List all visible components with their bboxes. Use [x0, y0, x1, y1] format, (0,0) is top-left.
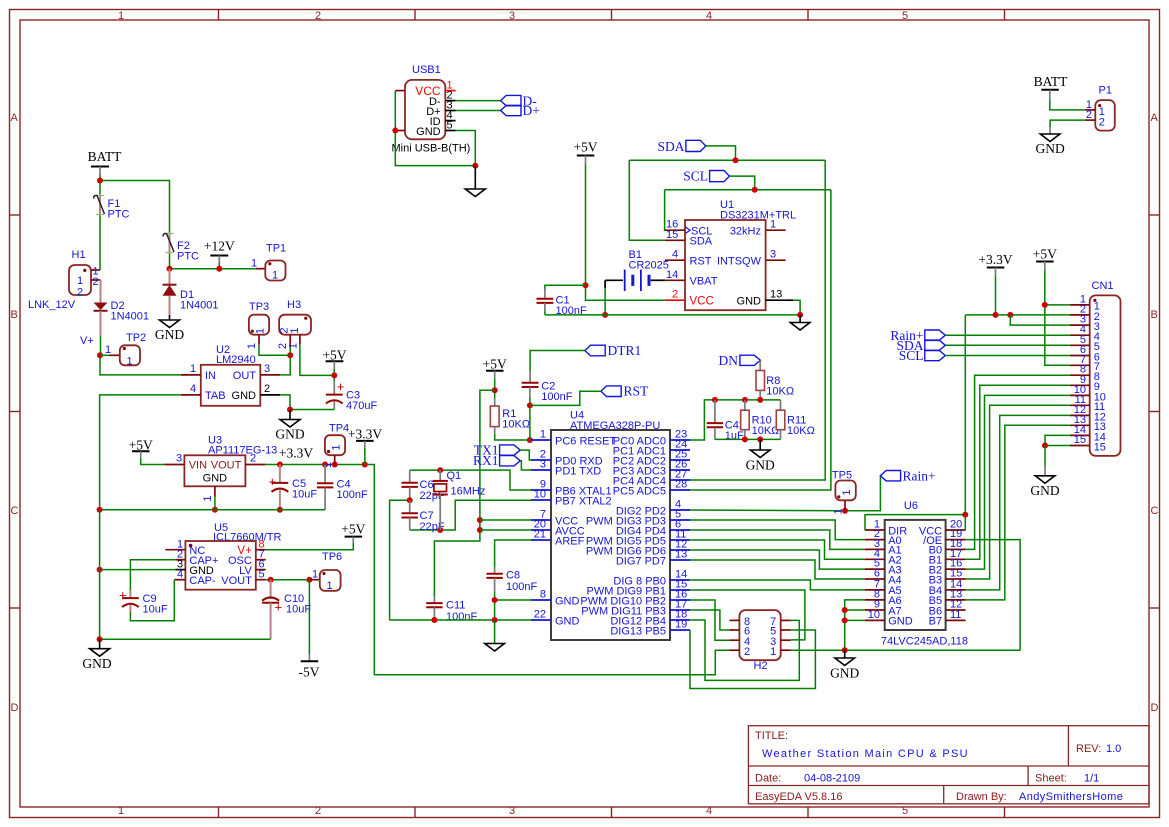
- wire SDA flag to rail: [706, 146, 736, 160]
- wire PB1 to H2 pin3: [690, 590, 805, 640]
- svg-text:D: D: [1151, 702, 1159, 714]
- svg-text:1: 1: [289, 327, 301, 333]
- svg-text:AREF: AREF: [555, 535, 585, 547]
- wire +5V node to VCC/AVCC rail: [434, 390, 494, 596]
- svg-text:2: 2: [1086, 109, 1092, 121]
- svg-text:PB7 XTAL2: PB7 XTAL2: [555, 495, 612, 507]
- +3.3V rail from U3 VOUT: [265, 465, 374, 675]
- svg-text:AndySmithersHome: AndySmithersHome: [1019, 791, 1123, 803]
- wire PB2 to H2 pin4: [690, 600, 730, 640]
- svg-text:AP1117EG-13: AP1117EG-13: [208, 445, 277, 457]
- wire USB D-: [456, 100, 501, 102]
- wire SCL long vertical to U4 pin28: [690, 190, 831, 490]
- crystal bottom rail XTAL2: [410, 500, 531, 530]
- svg-text:DIG13 PB5: DIG13 PB5: [610, 625, 666, 637]
- svg-text:22pF: 22pF: [420, 521, 445, 533]
- svg-text:PTC: PTC: [108, 209, 130, 221]
- svg-text:DTR1: DTR1: [608, 343, 642, 358]
- svg-text:GND: GND: [830, 666, 859, 681]
- node BATT junction: [97, 178, 103, 184]
- svg-text:3: 3: [770, 249, 776, 261]
- svg-text:13: 13: [770, 289, 782, 301]
- svg-text:+3.3V: +3.3V: [279, 446, 313, 461]
- frame tick left A/B: [10, 214, 20, 216]
- svg-text:GND: GND: [155, 327, 184, 342]
- svg-text:TP5: TP5: [832, 470, 852, 482]
- svg-text:GND: GND: [232, 390, 257, 402]
- frame tick top 2: [414, 10, 416, 20]
- wire U6 A7 to gnd: [845, 609, 865, 611]
- bottom gnd rail: [100, 638, 271, 640]
- wire CN1 pin13 to U6 B5: [966, 425, 1070, 600]
- wire DIG3 to U6 A0: [690, 520, 865, 540]
- svg-text:SCL: SCL: [899, 348, 924, 363]
- wire BATT to P1 pin1: [1050, 100, 1085, 110]
- svg-text:2: 2: [672, 289, 678, 301]
- regulator U2 LM2940: [201, 365, 260, 406]
- svg-text:A: A: [1151, 112, 1159, 124]
- svg-text:1: 1: [322, 462, 334, 468]
- svg-text:11: 11: [950, 609, 961, 621]
- wire DIG6 to U6 A3: [690, 550, 865, 569]
- svg-text:10uF: 10uF: [292, 489, 317, 501]
- resistor R11 10K: [780, 400, 782, 410]
- wire U6 /OE down to gnd row: [966, 540, 1021, 651]
- node TP3/H3 junction: [287, 352, 293, 358]
- svg-text:H1: H1: [72, 249, 86, 261]
- wire CN1 pin12 to U6 B4: [966, 415, 1070, 590]
- svg-text:10uF: 10uF: [286, 604, 311, 616]
- svg-text:LNK_12V: LNK_12V: [28, 299, 76, 311]
- svg-text:+5V: +5V: [573, 140, 597, 155]
- wire PB4 to H2 pin7: [690, 620, 799, 680]
- ground under U2: [289, 410, 291, 420]
- svg-text:10: 10: [868, 609, 880, 621]
- frame tick bottom 5: [1004, 807, 1006, 817]
- svg-text:GND: GND: [82, 656, 111, 671]
- svg-text:TP2: TP2: [126, 332, 146, 344]
- wire P1 pin2 to gnd: [1050, 120, 1085, 127]
- gnd rail under U3: [100, 509, 326, 511]
- svg-text:-5V: -5V: [299, 665, 320, 680]
- svg-text:1: 1: [118, 10, 124, 22]
- svg-text:+5V: +5V: [322, 348, 346, 363]
- svg-text:4: 4: [706, 10, 712, 22]
- wire U2 TAB to left gnd rail: [100, 395, 181, 510]
- wire SDA long vertical to U4 pin27: [690, 160, 825, 480]
- svg-text:RST: RST: [624, 384, 650, 399]
- wire CN1 pin10 to U6 B2: [966, 395, 1070, 569]
- frame tick left C/D: [10, 607, 20, 609]
- net flag D+: [501, 105, 521, 115]
- frame tick top 3: [611, 10, 613, 20]
- wire PC0 to divider: [690, 400, 781, 440]
- frame tick top 1: [218, 10, 220, 20]
- svg-text:ICL7660M/TR: ICL7660M/TR: [213, 532, 282, 544]
- wire U5 CAP+ through C9 to CAP-: [130, 560, 175, 590]
- svg-text:PTC: PTC: [177, 251, 199, 263]
- svg-text:+5V: +5V: [129, 438, 153, 453]
- svg-text:5: 5: [259, 569, 265, 581]
- diode D1: [169, 269, 171, 285]
- node F2/D1 junction: [167, 266, 173, 272]
- capacitor C9 10uF: [129, 590, 131, 598]
- svg-text:1: 1: [202, 496, 214, 502]
- svg-text:1: 1: [770, 646, 776, 658]
- svg-text:1: 1: [327, 580, 333, 592]
- wire RX1 to pin3: [520, 461, 531, 470]
- svg-text:4: 4: [190, 383, 196, 395]
- wire U6 VCC up to +3.3V row: [964, 315, 966, 515]
- svg-text:VBAT: VBAT: [690, 276, 718, 288]
- svg-text:+3.3V: +3.3V: [348, 427, 382, 442]
- test point TP3: [259, 345, 290, 356]
- svg-text:1: 1: [272, 270, 278, 282]
- svg-text:1: 1: [841, 489, 853, 495]
- ground under divider: [759, 439, 761, 450]
- svg-text:CAP-: CAP-: [189, 575, 216, 587]
- svg-text:TP4: TP4: [329, 423, 349, 435]
- svg-text:100nF: 100nF: [541, 391, 572, 403]
- svg-text:+: +: [337, 379, 345, 394]
- svg-text:B7: B7: [929, 616, 942, 628]
- wire RST to C2 bottom: [530, 391, 601, 405]
- svg-text:28: 28: [675, 479, 687, 491]
- svg-text:3: 3: [509, 10, 515, 22]
- svg-text:DN: DN: [719, 353, 739, 368]
- svg-text:10KΩ: 10KΩ: [766, 386, 794, 398]
- svg-text:1: 1: [190, 363, 196, 375]
- crystal gnd rail to left: [390, 500, 410, 620]
- resistor R10 10K: [744, 400, 746, 410]
- wire U5 VOUT to TP6: [266, 579, 310, 581]
- svg-text:GND: GND: [888, 616, 913, 628]
- wire R1 bottom to pin1 row: [495, 434, 530, 440]
- svg-text:2: 2: [744, 646, 750, 658]
- svg-text:RST: RST: [690, 256, 712, 268]
- svg-text:GND: GND: [416, 126, 441, 138]
- svg-text:+3.3V: +3.3V: [978, 252, 1012, 267]
- svg-text:Rain+: Rain+: [903, 468, 936, 483]
- svg-text:B: B: [11, 309, 18, 321]
- svg-text:+: +: [275, 600, 283, 615]
- svg-text:C8: C8: [506, 570, 520, 582]
- svg-text:15: 15: [1074, 434, 1086, 446]
- U3 GND pin down: [214, 486, 216, 496]
- svg-text:H2: H2: [754, 660, 768, 672]
- svg-text:04-08-2109: 04-08-2109: [804, 773, 860, 785]
- svg-text:TAB: TAB: [205, 390, 226, 402]
- frame tick top 5: [1004, 10, 1006, 20]
- svg-text:VOUT: VOUT: [211, 460, 242, 472]
- wire row2 jog to CN1 pin3: [1010, 315, 1069, 325]
- wire CN1 pin9 to U6 B1: [966, 385, 1070, 559]
- wire U5 V+ to +5V: [266, 543, 354, 550]
- wire VCC row: [480, 519, 531, 521]
- RTC U1 DS3231M+TRL: [685, 220, 766, 310]
- svg-text:ATMEGA328P-PU: ATMEGA328P-PU: [570, 420, 660, 432]
- svg-text:1: 1: [77, 275, 83, 287]
- svg-text:15: 15: [666, 229, 678, 241]
- svg-text:TP3: TP3: [249, 301, 269, 313]
- svg-text:GND: GND: [737, 296, 762, 308]
- svg-text:1: 1: [127, 356, 133, 368]
- svg-text:19: 19: [675, 619, 687, 631]
- capacitor C4 100nF: [324, 465, 326, 484]
- wire +5V to U3 VIN: [141, 458, 165, 465]
- svg-text:1uF: 1uF: [725, 430, 744, 442]
- svg-text:10KΩ: 10KΩ: [787, 425, 815, 437]
- svg-text:C11: C11: [446, 600, 465, 612]
- ground under U6 A pins: [844, 650, 846, 658]
- U6 right pin stubs: [946, 529, 966, 531]
- wire +5V to CN1 pin1 and pin7: [1045, 270, 1070, 365]
- svg-text:1: 1: [770, 219, 776, 231]
- svg-text:Weather Station Main CPU & PSU: Weather Station Main CPU & PSU: [762, 748, 969, 760]
- wire SCL rail: [665, 189, 831, 191]
- frame tick right B/C: [1149, 411, 1159, 413]
- ground under U1: [799, 315, 801, 323]
- RTC gnd rail: [545, 314, 800, 316]
- connector CN1: [1090, 295, 1121, 456]
- svg-text:RX1: RX1: [473, 453, 499, 468]
- svg-text:U6: U6: [904, 500, 918, 512]
- regulator U3 AP1117EG-13: [184, 455, 245, 486]
- wire DIG7 to U6 A4: [690, 560, 865, 579]
- wire battery to gnd rail: [604, 280, 606, 288]
- svg-text:4: 4: [672, 249, 678, 261]
- wire U2 GND pin to gnd node: [280, 395, 334, 410]
- svg-text:DIG7 PD7: DIG7 PD7: [616, 555, 666, 567]
- svg-text:3: 3: [176, 453, 182, 465]
- svg-text:+5V: +5V: [1033, 246, 1057, 261]
- svg-text:Drawn By:: Drawn By:: [956, 791, 1007, 803]
- svg-text:D: D: [11, 702, 19, 714]
- frame tick bottom 4: [807, 807, 809, 817]
- capacitor C6 22pF: [409, 470, 411, 483]
- svg-text:3: 3: [264, 363, 270, 375]
- net flag D-: [501, 95, 521, 105]
- test point TP5: [844, 500, 846, 511]
- svg-text:Mini USB-B(TH): Mini USB-B(TH): [392, 143, 471, 155]
- svg-text:2: 2: [77, 287, 83, 299]
- svg-text:1: 1: [312, 569, 318, 581]
- +3.3V row2 rail: [965, 314, 1069, 316]
- svg-text:CR2025: CR2025: [629, 260, 669, 272]
- svg-text:32kHz: 32kHz: [730, 226, 761, 238]
- svg-text:1: 1: [833, 509, 845, 515]
- svg-text:1/1: 1/1: [1084, 773, 1099, 785]
- wire DTR1 to C2: [530, 351, 585, 372]
- test point TP2: [100, 354, 110, 356]
- svg-text:BATT: BATT: [88, 149, 123, 164]
- svg-text:1: 1: [255, 328, 267, 334]
- svg-text:REV:: REV:: [1076, 743, 1101, 755]
- wire TX1 to pin2: [520, 450, 531, 460]
- charge pump U5 ICL7660M/TR: [185, 541, 255, 590]
- wire U5 GND pin to left rail: [100, 569, 176, 571]
- svg-text:8: 8: [540, 589, 546, 601]
- net flag RST: [601, 386, 621, 397]
- capacitor C8 100nF: [494, 567, 496, 574]
- ground under USB1: [474, 166, 476, 189]
- svg-text:10KΩ: 10KΩ: [752, 425, 780, 437]
- svg-text:TP1: TP1: [266, 243, 286, 255]
- frame tick bottom 2: [414, 807, 416, 817]
- frame tick bottom 3: [611, 807, 613, 817]
- svg-text:V+: V+: [80, 335, 94, 347]
- test point TP4: [325, 435, 345, 455]
- frame tick left B/C: [10, 411, 20, 413]
- capacitor C10 10uF: [270, 580, 272, 599]
- svg-text:+: +: [269, 474, 277, 489]
- wire F1 to H1 pin1: [99, 216, 101, 270]
- wire U6 DIR to VCC loop: [865, 515, 966, 530]
- svg-text:1: 1: [246, 343, 258, 349]
- wire U6 GND pin to gnd: [845, 619, 865, 621]
- svg-text:C: C: [1151, 505, 1159, 517]
- svg-text:4: 4: [177, 569, 183, 581]
- svg-text:D+: D+: [523, 103, 540, 118]
- wire PB5 to H2 pin5: [690, 630, 815, 689]
- fuse F2: [169, 232, 171, 254]
- svg-text:VCC: VCC: [690, 296, 714, 308]
- wire SCL to CN1 pin6: [945, 355, 1069, 357]
- wire GND pin8 row: [495, 599, 531, 601]
- net flag Rain+ upper: [880, 471, 900, 481]
- svg-text:15: 15: [1094, 441, 1106, 453]
- wire VOUT to -5V: [308, 580, 310, 654]
- frame tick top 4: [807, 10, 809, 20]
- buffer U6 74LVC245AD,118: [885, 520, 946, 630]
- svg-text:SCL: SCL: [683, 169, 708, 184]
- svg-text:TITLE:: TITLE:: [755, 730, 788, 742]
- svg-text:CN1: CN1: [1092, 280, 1114, 292]
- svg-text:Date:: Date:: [755, 773, 781, 785]
- svg-text:A: A: [11, 112, 19, 124]
- resistor R8 10K: [759, 360, 761, 370]
- svg-text:1.0: 1.0: [1106, 743, 1121, 755]
- svg-text:1: 1: [118, 805, 124, 817]
- gnd row under H2: [791, 649, 1020, 651]
- svg-text:+: +: [119, 588, 127, 603]
- svg-text:3: 3: [540, 459, 546, 471]
- wire U6 A6 to gnd: [845, 600, 865, 650]
- svg-text:P1: P1: [1099, 85, 1112, 97]
- wire U1 GND pin to rail: [786, 299, 793, 301]
- capacitor C42 1uF: [714, 400, 716, 423]
- svg-text:PD1 TXD: PD1 TXD: [555, 465, 601, 477]
- wire DIG4 to U6 A1: [690, 530, 865, 549]
- svg-text:2: 2: [1099, 116, 1105, 128]
- svg-text:SDA: SDA: [690, 236, 713, 248]
- ground under U4: [494, 620, 496, 644]
- svg-text:470uF: 470uF: [346, 400, 377, 412]
- frame tick right A/B: [1149, 214, 1159, 216]
- svg-text:LM2940: LM2940: [216, 354, 256, 366]
- svg-text:VIN: VIN: [189, 460, 207, 472]
- ground under CN1: [1035, 476, 1055, 484]
- svg-text:USB1: USB1: [412, 64, 441, 76]
- svg-text:C: C: [11, 505, 19, 517]
- ground under P1: [1040, 134, 1060, 142]
- capacitor C5 10uF: [279, 465, 281, 483]
- wire BATT to F1/F2: [99, 175, 101, 194]
- svg-text:1: 1: [105, 344, 111, 356]
- wire H3 pin1 to +5V node: [300, 345, 334, 376]
- resistor R1 10K: [494, 398, 496, 406]
- svg-text:1N4001: 1N4001: [180, 300, 219, 312]
- svg-text:EasyEDA V5.8.16: EasyEDA V5.8.16: [755, 791, 842, 803]
- capacitor C1 100nF: [545, 285, 586, 289]
- svg-text:GND: GND: [275, 427, 304, 442]
- svg-text:+5V: +5V: [483, 356, 507, 371]
- svg-text:13: 13: [675, 549, 687, 561]
- svg-text:+5V: +5V: [341, 522, 365, 537]
- svg-text:2: 2: [250, 453, 256, 465]
- node V+ junction: [97, 352, 103, 358]
- svg-text:1N4001: 1N4001: [111, 311, 150, 323]
- svg-text:10KΩ: 10KΩ: [502, 419, 530, 431]
- U4 left pin stubs: [531, 439, 551, 441]
- wire Rain+ to CN1 pin4: [945, 334, 1069, 336]
- wire D2 to TP2 node and U2 IN: [100, 336, 102, 355]
- CN1 pin stubs: [1070, 304, 1090, 306]
- svg-text:2: 2: [93, 276, 99, 288]
- header H1: [69, 265, 91, 295]
- svg-text:IN: IN: [205, 370, 216, 382]
- svg-text:1: 1: [288, 343, 300, 349]
- svg-text:GND: GND: [203, 473, 228, 485]
- frame tick right C/D: [1149, 607, 1159, 609]
- svg-text:10: 10: [534, 489, 546, 501]
- svg-text:GND: GND: [1035, 141, 1064, 156]
- crystal top rail XTAL1: [410, 470, 531, 490]
- svg-text:2: 2: [315, 10, 321, 22]
- svg-text:1: 1: [251, 258, 257, 270]
- wire CN1 pin11 to U6 B3: [966, 405, 1070, 579]
- svg-text:GND: GND: [746, 458, 775, 473]
- wire U2 OUT to H3 pin2: [280, 346, 290, 375]
- wire CN1 pin8 to U6 B0: [966, 375, 1070, 549]
- test point TP1: [256, 268, 265, 270]
- fuse F1: [99, 194, 101, 216]
- wire DIG5 to U6 A2: [690, 540, 865, 559]
- U6 left pin stubs: [865, 529, 885, 531]
- wire H2 pin2 to +3.3V rail: [374, 650, 729, 675]
- svg-text:GND: GND: [555, 615, 580, 627]
- svg-text:4: 4: [706, 805, 712, 817]
- svg-text:100nF: 100nF: [337, 489, 368, 501]
- divider gnd rail: [715, 438, 781, 440]
- ground bottom-left: [99, 639, 101, 648]
- svg-text:SDA: SDA: [657, 139, 684, 154]
- title block box: [748, 726, 1149, 804]
- capacitor C7 22pF: [409, 500, 411, 513]
- svg-text:3: 3: [509, 805, 515, 817]
- wire USB VCC/GND left loop: [395, 90, 405, 92]
- svg-text:5: 5: [902, 805, 908, 817]
- wire SCL flag to rail: [730, 176, 755, 190]
- svg-text:21: 21: [534, 529, 546, 541]
- svg-text:16MHz: 16MHz: [451, 486, 486, 498]
- capacitor C2 100nF: [529, 371, 531, 383]
- header H2: [739, 610, 780, 660]
- wire CN1 pin14/15 to gnd: [1045, 435, 1070, 445]
- wire USB D+: [456, 110, 501, 112]
- svg-text:10uF: 10uF: [143, 604, 168, 616]
- gnd rail pin22 row: [390, 619, 531, 621]
